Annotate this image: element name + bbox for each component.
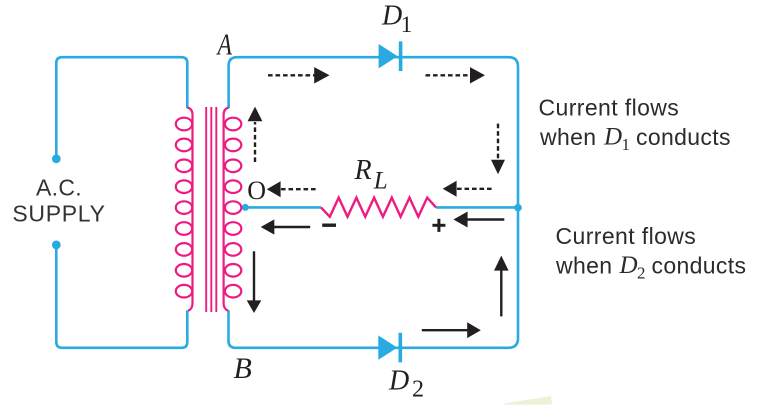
svg-text:2: 2 — [412, 376, 424, 402]
svg-text:B: B — [234, 352, 252, 385]
svg-text:D: D — [381, 0, 402, 31]
svg-text:D: D — [619, 252, 638, 279]
svg-text:D: D — [603, 124, 622, 151]
svg-text:SUPPLY: SUPPLY — [12, 201, 105, 227]
svg-text:conducts: conducts — [636, 124, 731, 150]
svg-text:2: 2 — [637, 264, 646, 283]
svg-text:1: 1 — [401, 12, 413, 37]
svg-text:when: when — [555, 252, 612, 278]
svg-text:A.C.: A.C. — [36, 175, 82, 201]
svg-text:1: 1 — [622, 135, 631, 154]
svg-text:A: A — [216, 27, 233, 62]
svg-text:Current flows: Current flows — [539, 95, 680, 121]
svg-text:conducts: conducts — [652, 252, 747, 278]
svg-text:R: R — [354, 155, 372, 186]
svg-text:D: D — [388, 366, 409, 397]
svg-text:L: L — [373, 167, 388, 194]
svg-text:O: O — [247, 176, 266, 205]
svg-text:Current flows: Current flows — [556, 223, 697, 249]
svg-text:when: when — [539, 124, 596, 150]
